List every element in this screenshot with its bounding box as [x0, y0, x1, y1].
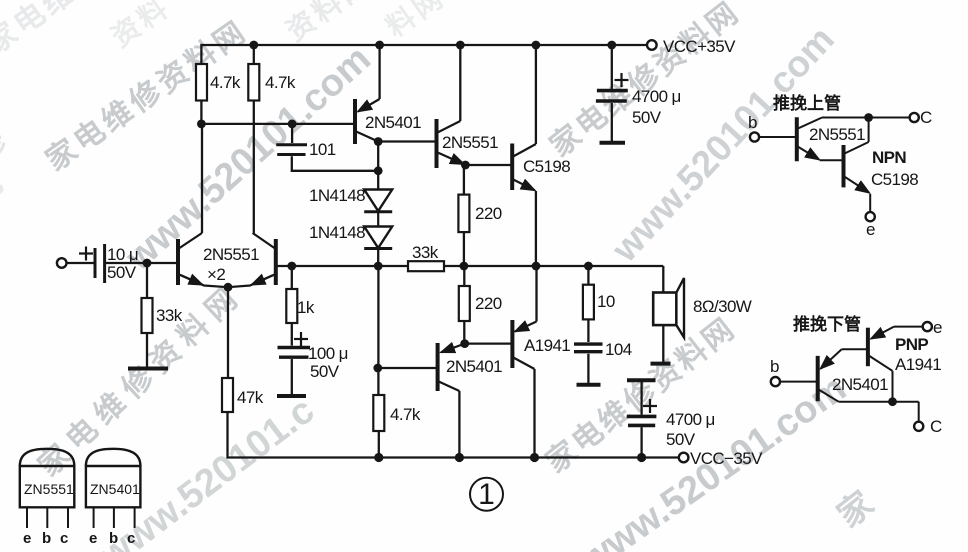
svg-text:b: b — [748, 113, 757, 132]
ground for 104 — [577, 383, 601, 387]
wire mid output rail — [292, 265, 664, 267]
resistor 1k — [286, 289, 297, 323]
node dots output rail — [287, 262, 296, 271]
node dot VAS emitter — [461, 161, 470, 170]
svg-text:b: b — [770, 357, 779, 376]
ground for 100u — [277, 394, 306, 398]
terminal C upper ill — [910, 113, 919, 122]
UPPER DARLINGTON ILLUSTRATION — [748, 93, 932, 239]
wire 4700u bottom cap leads — [640, 380, 642, 414]
package ZN5401 outline — [86, 466, 140, 507]
wire C5198 collector to rail — [535, 45, 537, 144]
terminal e upper ill — [866, 212, 875, 221]
wire 104 cap to ground — [587, 354, 589, 385]
package ZN5551 outline — [20, 466, 75, 507]
capacitor 4700u top plates — [597, 89, 628, 93]
svg-text:2N5401: 2N5401 — [365, 113, 421, 132]
svg-text:1: 1 — [478, 478, 495, 511]
svg-text:10: 10 — [597, 292, 615, 311]
terminal VCC-35V — [679, 453, 689, 463]
transistor Q C5198 (NPN output) — [510, 144, 514, 191]
wire collector bus to C — [822, 117, 910, 119]
wire lower driver base line — [378, 367, 438, 369]
wire input 33k leads — [146, 263, 148, 298]
wire right 4.7k bottom to diff right collector — [253, 100, 255, 233]
wire diode column top — [377, 142, 379, 190]
resistor 4.7k left — [196, 64, 207, 101]
wire Q1 collector bus — [839, 401, 919, 403]
package ZN5551 pins — [26, 507, 28, 528]
ground for 4700u top — [600, 141, 626, 145]
svg-text:220: 220 — [475, 204, 502, 223]
wire Q2 collector down — [892, 371, 894, 402]
wire diff right base — [276, 265, 292, 267]
svg-text:8Ω/30W: 8Ω/30W — [693, 297, 752, 316]
wire upper 2N5401 emitter to rail — [378, 45, 380, 99]
svg-text:C: C — [920, 108, 932, 127]
wire bottom VCC- rail — [228, 412, 679, 458]
wire Q1 emitter to Q2 base — [842, 348, 868, 350]
capacitor 104 plates — [574, 342, 603, 345]
ground for speaker — [651, 362, 671, 366]
resistor 4.7k lower — [373, 395, 384, 431]
terminal e lower ill — [923, 322, 932, 331]
wire A1941 emitter up to output rail — [535, 266, 537, 322]
svg-text:220: 220 — [475, 294, 502, 313]
wire diff shared emitters to 47k — [227, 287, 229, 378]
wire C5198 emitter down to output rail — [535, 191, 537, 266]
wire upper 220 leads — [463, 165, 465, 195]
wire right 4.7k top lead — [253, 45, 255, 64]
wire Q2 emitter down to e — [869, 194, 871, 212]
transistor Q C5198 of upper ill — [842, 145, 846, 187]
transistor Q 2N5551 of upper ill — [795, 117, 799, 161]
terminal C lower ill — [914, 422, 923, 431]
svg-text:50V: 50V — [632, 108, 662, 127]
wire 100u cap to ground — [291, 359, 293, 396]
node dot input base — [143, 259, 152, 268]
transistor Q lower driver 2N5401 (PNP) — [436, 343, 440, 391]
svg-text:e: e — [23, 530, 31, 547]
resistor 220 lower — [459, 286, 470, 321]
wire lower 2N5401 emitter junction to A1941 base — [465, 342, 513, 344]
wire speaker drop — [662, 266, 664, 293]
svg-text:PNP: PNP — [895, 335, 928, 354]
wire Q2 emitter to e — [894, 326, 923, 328]
svg-text:50V: 50V — [666, 430, 696, 449]
ground for 4700u bottom — [627, 378, 656, 382]
wire 1k leads — [291, 266, 293, 289]
transistor Q upper 2N5401 (PNP driver) — [353, 99, 357, 144]
terminal b lower ill — [771, 377, 780, 386]
wire b to base — [780, 381, 818, 383]
transistor Q VAS 2N5551 — [435, 119, 439, 168]
wire left 4.7k bottom lead — [200, 100, 202, 124]
node dot lower ill collector — [888, 397, 897, 406]
svg-text:A1941: A1941 — [895, 355, 941, 374]
capacitor 4700u bottom plus sign — [643, 405, 657, 407]
svg-text:家电维修: 家电维修 — [0, 0, 110, 61]
svg-text:VCC−35V: VCC−35V — [690, 449, 763, 468]
terminal b upper ill — [750, 132, 759, 141]
node dot shared emitters — [224, 283, 233, 292]
svg-text:×2: ×2 — [207, 265, 225, 284]
wire input cap to base junction — [104, 262, 178, 264]
svg-text:4.7k: 4.7k — [210, 73, 241, 92]
svg-text:www.520101.com: www.520101.com — [603, 18, 842, 270]
capacitor 4700u top plus sign — [615, 79, 629, 81]
wire diff left collector vertical — [201, 124, 203, 233]
svg-text:2N5401: 2N5401 — [446, 357, 502, 376]
wire 2N5551 VAS collector to rail — [459, 45, 461, 121]
svg-text:4.7k: 4.7k — [390, 405, 421, 424]
svg-text:VCC+35V: VCC+35V — [663, 37, 736, 56]
svg-text:ZN5401: ZN5401 — [90, 481, 140, 497]
DOTS TERMINALS TEXT — [57, 40, 688, 462]
wire 2N5401 collector to 2N5551 base — [378, 140, 436, 142]
node dot VAS base — [374, 137, 383, 146]
resistor 4.7k right — [248, 64, 259, 101]
wire Q2 collector up — [868, 118, 870, 143]
capacitor 4700u bottom plates — [627, 415, 657, 419]
wire diode bar column below rail to lower 4.7k — [377, 266, 379, 395]
svg-text:A1941: A1941 — [524, 336, 570, 355]
svg-text:4700 μ: 4700 μ — [632, 87, 681, 106]
resistor 10 — [583, 285, 594, 320]
svg-text:b: b — [109, 530, 118, 547]
transistor Q A1941 of lower ill — [866, 328, 870, 367]
svg-text:C5198: C5198 — [871, 170, 918, 189]
capacitor 100u plus sign — [294, 338, 308, 340]
resistor 220 upper — [458, 195, 469, 233]
transistor Q 2N5401 of lower ill — [816, 356, 820, 401]
svg-text:推挽下管: 推挽下管 — [793, 314, 861, 334]
wire top VCC+ rail — [201, 45, 647, 65]
svg-text:资料网: 资料网 — [281, 0, 377, 47]
node dot 101 return — [374, 166, 383, 175]
figure number 1 circled — [470, 478, 503, 511]
svg-text:2N5401: 2N5401 — [832, 375, 888, 394]
capacitor 10u plus sign — [79, 252, 93, 254]
ground for 33k input bias — [128, 367, 168, 371]
svg-text:C5198: C5198 — [523, 157, 570, 176]
node dot lower emitter — [460, 339, 469, 348]
PACKAGES — [20, 449, 141, 547]
svg-text:资料: 资料 — [106, 0, 176, 53]
wire 2N5551 emitter junction to C5198 base — [465, 164, 512, 166]
terminal input — [57, 258, 67, 268]
node dots base line — [197, 120, 206, 129]
resistor 47k — [222, 378, 233, 412]
wire input terminal to cap — [67, 262, 96, 264]
svg-text:4.7k: 4.7k — [265, 73, 296, 92]
svg-text:33k: 33k — [156, 306, 183, 325]
capacitor 101 plates — [276, 143, 307, 146]
svg-text:50V: 50V — [310, 362, 340, 381]
svg-text:33k: 33k — [412, 243, 439, 262]
wire C drop — [918, 402, 920, 422]
wire lower 220 leads — [463, 266, 465, 286]
svg-text:修: 修 — [0, 124, 13, 169]
svg-text:NPN: NPN — [872, 148, 906, 167]
node dots top rail — [249, 41, 258, 50]
transistor Q diff left 2N5551 — [176, 239, 180, 285]
svg-text:101: 101 — [309, 140, 336, 159]
transistor Q A1941 (PNP output) — [510, 320, 514, 368]
transistor Q diff right 2N5551 — [274, 239, 278, 285]
wire 10R leads — [587, 266, 589, 285]
terminal VCC+35V — [647, 40, 657, 50]
resistor 33k feedback horizontal — [408, 261, 444, 271]
diode 1N4148 lower — [364, 227, 392, 249]
LOWER DARLINGTON ILLUSTRATION — [770, 314, 942, 436]
wire A1941 collector to bottom rail — [533, 369, 535, 458]
svg-text:104: 104 — [605, 340, 632, 359]
svg-text:电: 电 — [0, 166, 9, 210]
svg-text:1N4148: 1N4148 — [309, 223, 365, 242]
svg-text:2N5551: 2N5551 — [809, 125, 865, 144]
package ZN5401 pins — [93, 507, 95, 528]
wire base line upper-left (4.7k bottoms to 2N5401 base) — [201, 123, 355, 125]
svg-text:e: e — [866, 220, 875, 239]
svg-text:e: e — [89, 530, 97, 547]
resistor 33k input bias — [142, 298, 153, 333]
wire lower 2N5401 collector to bottom rail — [458, 391, 460, 458]
wire b to base — [759, 136, 797, 138]
speaker 8ohm/30W — [653, 293, 676, 326]
svg-text:c: c — [127, 530, 135, 547]
svg-text:1N4148: 1N4148 — [309, 186, 365, 205]
wire lower 4.7k to bottom rail — [378, 431, 380, 458]
svg-text:ZN5551: ZN5551 — [24, 481, 74, 497]
svg-text:C: C — [930, 417, 942, 436]
capacitor 10u input plates — [94, 248, 97, 278]
node dot lower base — [373, 364, 382, 373]
svg-text:料网: 料网 — [381, 0, 451, 43]
wire 4700u top cap leads — [611, 45, 613, 89]
capacitor 100u plates — [278, 346, 311, 349]
node dots bottom rail — [374, 453, 383, 462]
svg-text:4700 μ: 4700 μ — [666, 410, 715, 429]
svg-text:100 μ: 100 μ — [308, 344, 348, 363]
svg-text:b: b — [42, 530, 51, 547]
wire 101 cap bottom L-path — [292, 156, 378, 171]
svg-text:e: e — [933, 318, 942, 337]
svg-text:推挽上管: 推挽上管 — [773, 93, 841, 113]
node dot upper ill collector — [864, 113, 873, 122]
svg-text:2N5551: 2N5551 — [203, 245, 259, 264]
svg-text:c: c — [60, 530, 68, 547]
svg-text:10 μ: 10 μ — [107, 245, 138, 264]
svg-text:50V: 50V — [107, 263, 137, 282]
svg-text:1k: 1k — [297, 298, 315, 317]
wire diodes to output rail — [377, 249, 379, 267]
svg-text:2N5551: 2N5551 — [442, 133, 498, 152]
wire Q1 emitter to Q2 base — [820, 159, 844, 161]
wire 101 cap top lead — [291, 124, 293, 143]
svg-text:家: 家 — [831, 484, 881, 535]
svg-text:47k: 47k — [237, 388, 264, 407]
diode 1N4148 upper — [364, 190, 392, 212]
wire speaker to ground — [662, 325, 664, 364]
